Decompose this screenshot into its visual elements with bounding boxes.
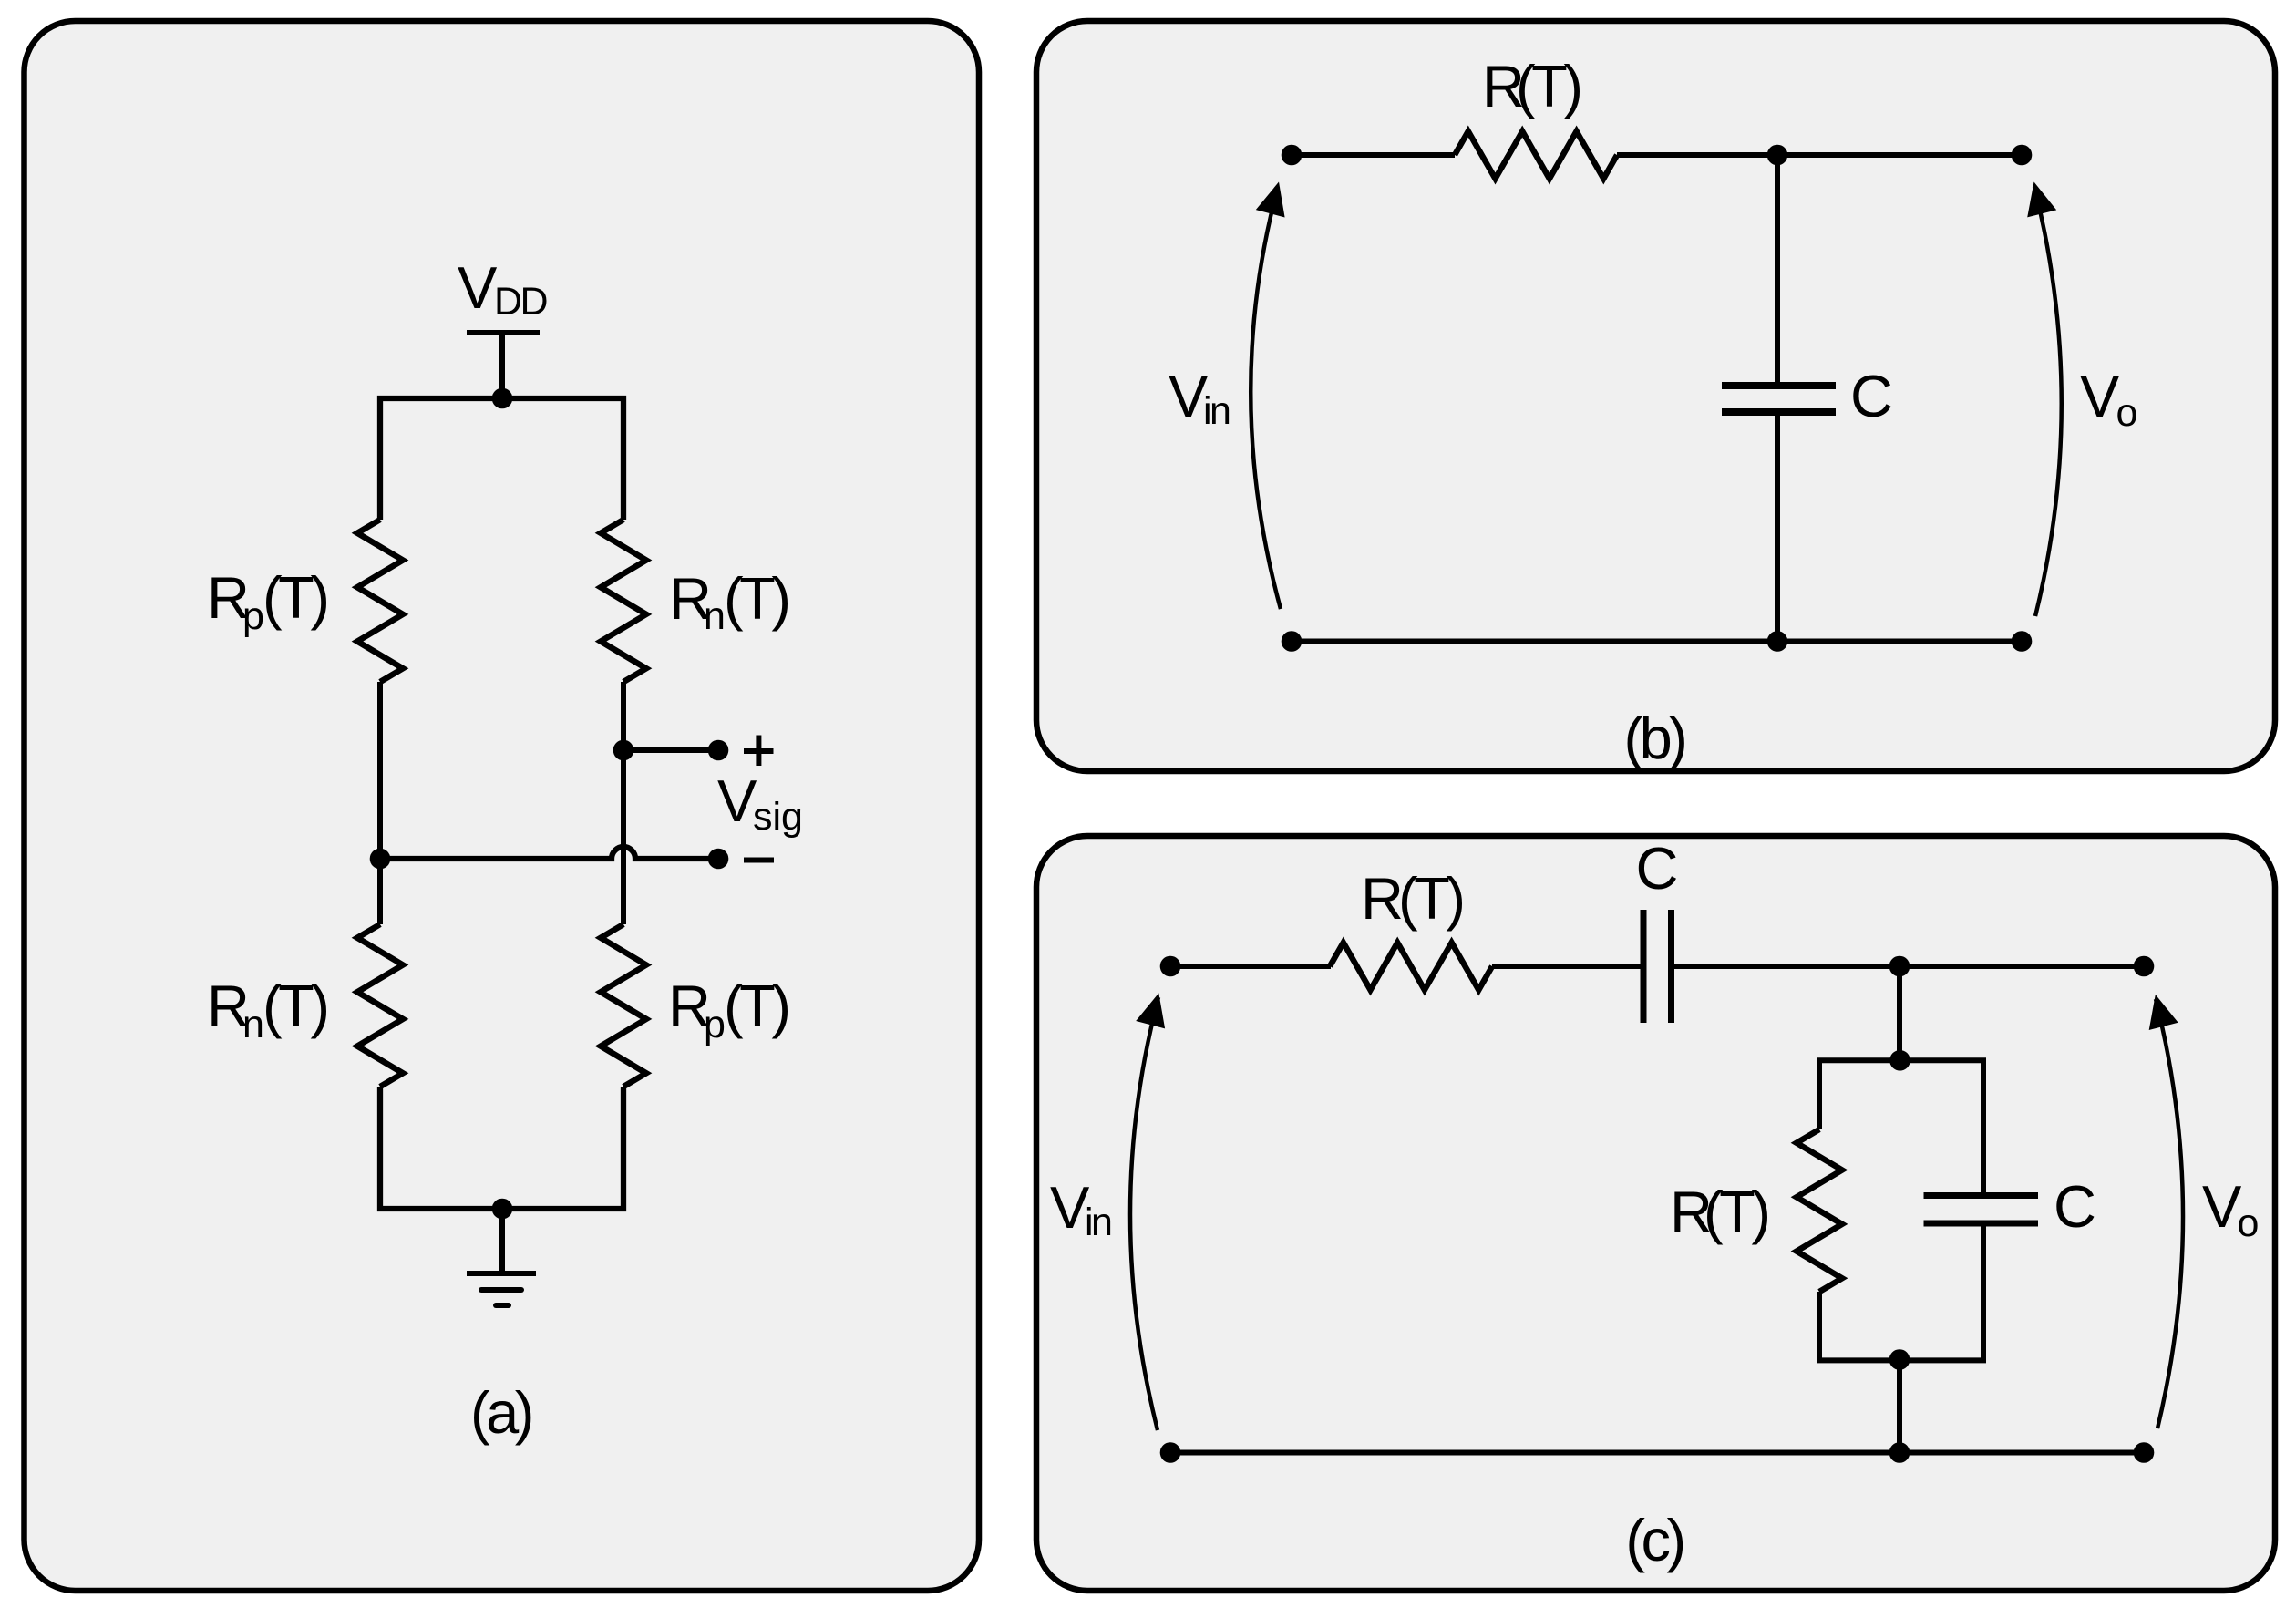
node parallel bottom (c) — [1889, 1349, 1910, 1370]
label R(T) parallel (c) — [1670, 1179, 1767, 1245]
Vo arrow (b) — [2027, 182, 2062, 617]
wire cap top lead (b) — [1775, 155, 1780, 386]
Vin arrow (c) — [1130, 993, 1165, 1430]
label Rp(T) lower-right — [668, 973, 788, 1046]
wire bottom rail — [380, 1087, 623, 1209]
Vsig label — [717, 768, 803, 839]
node bridge + output — [613, 740, 634, 761]
svg-text:V: V — [2080, 363, 2120, 429]
wire middle with hop over right rail — [380, 847, 718, 859]
resistor Rp(T) lower-right — [601, 924, 646, 1087]
svg-text:C: C — [1636, 835, 1679, 902]
wire parallel right upper (c) — [1981, 1060, 1986, 1192]
svg-text:V: V — [717, 768, 757, 834]
label Rn(T) lower-left — [207, 973, 326, 1046]
wire cap bottom lead (b) — [1775, 412, 1780, 642]
terminal Vo- (b) — [2012, 631, 2033, 652]
wire parallel bottom side (c) — [1817, 1357, 1986, 1363]
svg-text:(T): (T) — [263, 973, 326, 1039]
svg-text:C: C — [1850, 363, 1893, 429]
wire ground stub — [499, 1209, 505, 1273]
svg-text:(T): (T) — [263, 564, 326, 631]
Vo arrow (c) — [2149, 995, 2183, 1428]
resistor R(T) parallel (c) — [1797, 1129, 1842, 1292]
wire top-right (c) — [1674, 964, 2144, 969]
svg-text:(b): (b) — [1624, 705, 1685, 771]
node bottom mid (c) — [1889, 1442, 1910, 1463]
node bridge - output — [370, 849, 391, 870]
resistor R(T) (b) — [1455, 131, 1617, 179]
wire parallel right lower (c) — [1981, 1227, 1986, 1361]
wire node to bottom (c) — [1897, 1360, 1902, 1452]
panel (c) frame — [1036, 836, 2275, 1591]
terminal Vo+ (b) — [2012, 145, 2033, 166]
panel (b) frame — [1036, 21, 2275, 771]
svg-text:(T): (T) — [724, 565, 788, 632]
terminal + dot — [708, 740, 729, 761]
terminal Vin- (b) — [1282, 631, 1302, 652]
capacitor C series (c) — [1643, 910, 1672, 1023]
svg-text:n: n — [704, 594, 726, 638]
svg-text:in: in — [1085, 1201, 1111, 1244]
svg-text:(c): (c) — [1625, 1507, 1683, 1573]
wire top-left (c) — [1170, 964, 1331, 969]
Vin arrow (b) — [1251, 182, 1284, 610]
svg-text:(T): (T) — [1398, 865, 1462, 932]
minus sign — [744, 858, 774, 863]
wire node down (c) — [1897, 966, 1902, 1060]
wire to + terminal — [623, 747, 718, 753]
wire top-right (b) — [1617, 152, 2022, 158]
wire parallel left upper (c) — [1817, 1060, 1822, 1129]
resistor Rp(T) upper-left — [357, 520, 403, 682]
wire parallel top side (c) — [1817, 1057, 1986, 1063]
Vin label (b) — [1169, 363, 1230, 433]
svg-text:(a): (a) — [470, 1379, 531, 1446]
Vo label (c) — [2202, 1173, 2259, 1245]
wire bottom rail (b) — [1292, 639, 2022, 644]
VDD label — [458, 254, 547, 324]
node bottom mid (b) — [1767, 631, 1788, 652]
label Rp(T) upper-left — [207, 564, 326, 638]
Vin label (c) — [1050, 1174, 1111, 1244]
svg-text:V: V — [458, 254, 498, 321]
terminal Vin+ (b) — [1282, 145, 1302, 166]
resistor Rn(T) lower-left — [357, 924, 403, 1087]
node VDD junction — [492, 388, 513, 409]
terminal Vin+ (c) — [1160, 956, 1181, 977]
svg-text:(T): (T) — [724, 973, 788, 1039]
wire left rail middle — [377, 682, 383, 924]
svg-text:o: o — [2116, 391, 2138, 435]
svg-text:o: o — [2238, 1201, 2260, 1245]
Vo label (b) — [2080, 363, 2137, 435]
wire parallel left lower (c) — [1817, 1292, 1822, 1360]
svg-text:p: p — [704, 1003, 726, 1046]
svg-text:R: R — [1361, 865, 1404, 932]
node parallel top (c) — [1889, 1050, 1910, 1071]
wire bottom rail (c) — [1170, 1450, 2144, 1456]
plus sign — [744, 736, 774, 767]
wire top-left (b) — [1292, 152, 1455, 158]
node ground junction — [492, 1199, 513, 1220]
capacitor C parallel (c) — [1924, 1196, 2039, 1224]
svg-text:V: V — [2202, 1173, 2242, 1240]
terminal - dot — [708, 849, 729, 870]
VDD supply bar — [467, 330, 540, 335]
label R(T) (b) — [1482, 53, 1580, 119]
node top mid (b) — [1767, 145, 1788, 166]
resistor R(T) series (c) — [1330, 943, 1492, 990]
svg-text:n: n — [242, 1003, 264, 1046]
wire VDD stub — [499, 333, 505, 401]
terminal Vin- (c) — [1160, 1442, 1181, 1463]
wire top rail — [380, 398, 623, 520]
svg-text:(T): (T) — [1704, 1179, 1767, 1245]
panel (a) frame — [25, 21, 980, 1591]
label R(T) series (c) — [1361, 865, 1462, 932]
svg-text:(T): (T) — [1516, 53, 1580, 119]
label Rn(T) upper-right — [669, 565, 788, 638]
ground — [467, 1273, 536, 1305]
wire between R and C (c) — [1492, 964, 1641, 969]
terminal Vo+ (c) — [2134, 956, 2155, 977]
node top (c) — [1889, 956, 1910, 977]
resistor Rn(T) upper-right — [601, 520, 646, 682]
svg-text:in: in — [1203, 389, 1230, 433]
capacitor C (b) — [1722, 386, 1836, 412]
wire right rail middle — [621, 682, 626, 924]
svg-text:C: C — [2054, 1173, 2096, 1240]
svg-text:DD: DD — [494, 280, 547, 324]
svg-text:p: p — [242, 594, 264, 638]
svg-text:sig: sig — [753, 795, 803, 839]
terminal Vo- (c) — [2134, 1442, 2155, 1463]
